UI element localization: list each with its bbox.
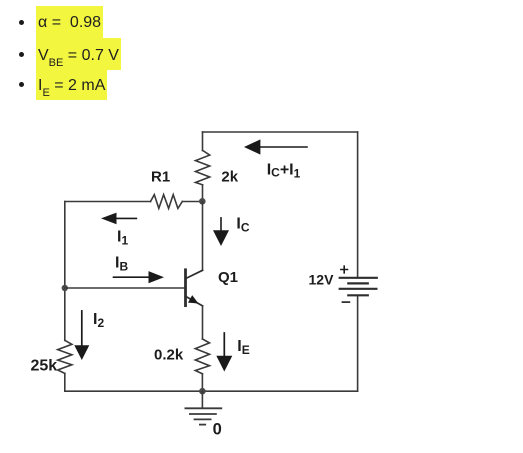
wire bottom rail [65, 390, 358, 392]
arrow IE [216, 333, 232, 372]
label 0.2k [154, 347, 184, 364]
label 12V [309, 272, 335, 288]
bullet 3 [19, 82, 24, 87]
label Q1 [218, 269, 238, 286]
transistor Q1 [186, 270, 203, 306]
wire right rail upper (to battery +) [357, 132, 359, 277]
resistor 25k [58, 340, 72, 373]
wire top rail [203, 131, 358, 133]
label 25k [31, 358, 58, 375]
label I2 [93, 311, 104, 330]
label node 0 [213, 420, 222, 438]
list item IE = 2 mA [36, 70, 107, 100]
wire emitter bottom lead [201, 374, 203, 391]
resistor R1 [151, 195, 183, 209]
svg-text:IB: IB [115, 255, 128, 274]
label Ic+I1 [267, 162, 301, 181]
label IB [115, 255, 128, 274]
wire emitter lead [202, 306, 204, 339]
svg-text:IC: IC [236, 216, 249, 235]
svg-text:I1: I1 [117, 229, 128, 248]
battery V1 12V [340, 278, 377, 296]
wire collector [202, 202, 204, 271]
resistor 2k [196, 150, 210, 185]
list item VBE = 0.7 V [36, 38, 121, 70]
label battery minus [342, 301, 349, 303]
node emitter-ground junction [199, 388, 206, 395]
wire R1 right lead to node [182, 201, 202, 203]
arrow Ic+I1 [244, 139, 307, 154]
svg-text:R1: R1 [151, 169, 170, 186]
wire R1 left lead [65, 201, 151, 203]
svg-text:25k: 25k [31, 358, 58, 375]
svg-text:0.2k: 0.2k [154, 347, 184, 364]
list item alpha = 0.98 [36, 6, 103, 38]
svg-text:IE: IE [237, 338, 249, 357]
wire left rail lower [64, 373, 66, 391]
ground [185, 391, 221, 424]
arrow Ic [213, 218, 229, 246]
bullet 2 [19, 52, 24, 57]
label I1 [117, 229, 128, 248]
wire left rail upper [64, 202, 66, 341]
resistor 0.2k [195, 339, 209, 374]
node collector junction [199, 198, 206, 205]
arrow IB [114, 271, 165, 283]
arrow I1 [101, 213, 136, 225]
label 2k [221, 169, 238, 186]
svg-text:I2: I2 [93, 311, 104, 330]
node base junction [62, 285, 68, 291]
label IE [237, 338, 249, 357]
svg-text:12V: 12V [309, 272, 335, 288]
label battery plus [341, 266, 348, 273]
label R1 [151, 169, 170, 186]
label Ic [236, 216, 249, 235]
svg-text:IC+I1: IC+I1 [267, 162, 301, 181]
svg-text:Q1: Q1 [218, 269, 238, 286]
svg-text:2k: 2k [221, 169, 238, 186]
wire 2k top lead [202, 132, 204, 151]
svg-text:0: 0 [213, 420, 222, 438]
bullet 1 [19, 20, 24, 25]
arrow I2 [74, 311, 89, 360]
wire 2k bottom lead [202, 185, 204, 202]
wire right rail lower (battery - to bottom) [357, 296, 359, 391]
wire base [65, 287, 186, 289]
